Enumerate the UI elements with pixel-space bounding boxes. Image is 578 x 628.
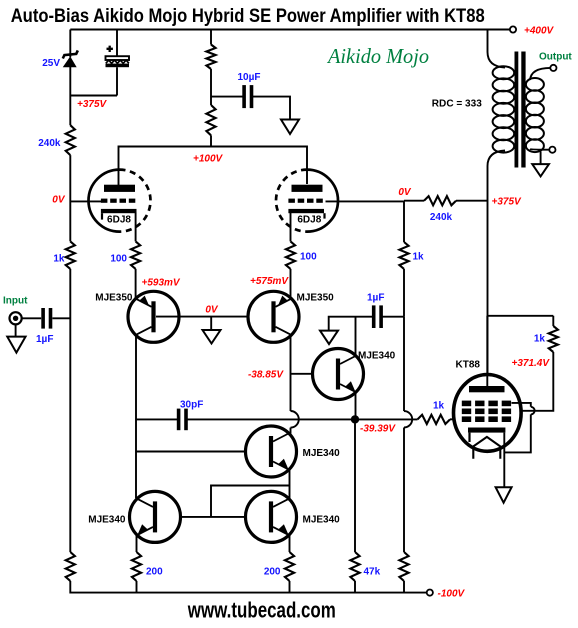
resistor 1k left [66,241,75,269]
terminal output hot [550,65,556,71]
ground at output [532,164,549,176]
wire Q6 emitter into bottom rail [289,581,291,594]
resistor 1k screen [549,326,558,352]
wire +375V node horizontal [70,95,117,97]
svg-text:1k: 1k [413,252,425,263]
ground at KT88 cathode [496,487,512,503]
svg-text:1µF: 1µF [367,293,384,304]
svg-text:10µF: 10µF [238,72,261,83]
resistor mid-bottom [399,552,408,581]
wire screen resistor down [512,352,554,411]
terminal output cold [549,147,555,153]
wire 30pF left [136,418,178,420]
svg-text:KT88: KT88 [456,360,481,371]
wire R chain middle [210,69,212,105]
wire Q4 emitter down [289,470,291,486]
wire 0V ground stub [210,317,212,330]
terminal -100V [427,590,433,596]
wire tube1 cathode down [135,213,137,242]
hop beam line over screen wire [531,407,535,415]
wire rail 1k to bottom resistor [69,269,71,552]
wire +100V rail [119,147,308,186]
wire dot to KT88 grid resistor [359,418,418,420]
wire Q4 base [136,451,247,453]
capacitor 10uF [242,85,246,108]
transformer T1 core [515,52,519,168]
hop Q2 collector over 30pF wire [291,411,299,428]
svg-text:RDC = 333: RDC = 333 [432,99,482,110]
wire jack ground stub [15,324,17,336]
svg-text:-100V: -100V [438,589,466,600]
transformer T1 secondary winding [526,78,544,152]
hop mid rail over grid wire [404,411,412,427]
wire rail into bottom rail [69,581,71,594]
wire 1uF input to rail [52,317,70,319]
wire 10uF node horizontal left [211,96,243,98]
svg-text:+575mV: +575mV [250,276,289,287]
wire Q6 emitter down [289,535,291,552]
wire top B+ rail [70,29,510,31]
wire 47k into bottom rail [354,581,356,594]
svg-text:www.tubecad.com: www.tubecad.com [187,598,336,623]
resistor upper (chain) [206,45,215,70]
terminal +400V [510,26,516,32]
resistor 240k left [66,125,75,155]
svg-text:6DJ8: 6DJ8 [107,214,131,225]
wire base Q1-Q2 [156,316,271,318]
svg-text:30pF: 30pF [180,400,203,411]
svg-text:47k: 47k [364,567,381,578]
svg-text:Input: Input [3,296,28,307]
wire KT88 plate [486,316,488,386]
wire jack to 1uF [22,317,42,319]
wire secondary top lead [530,68,550,80]
svg-text:Aikido Mojo: Aikido Mojo [326,44,429,68]
wire Q5 emitter into bottom rail [136,581,138,594]
wire 1k mid to 1uF node [403,269,405,317]
wire screen resistor top lead [552,316,554,326]
wire Q4 emitter to Q6 collector [289,486,291,499]
resistor 240k right [424,196,456,205]
wire 30pF right to dot [186,418,351,420]
wire left rail top segment [69,30,71,49]
svg-text:Output: Output [539,52,572,63]
svg-text:MJE340: MJE340 [303,515,341,526]
wire zener to +375V node [69,67,71,96]
wire mid rail to bottom resistor [403,428,405,553]
svg-text:1µF: 1µF [36,334,53,345]
pentode V1 KT88 [454,375,522,459]
wire top rail to R chain [210,30,212,45]
resistor 1k mid [399,242,408,269]
transistor Q2 MJE350 [248,291,299,342]
svg-text:MJE340: MJE340 [88,515,126,526]
wire grid resistor into tube [450,418,463,420]
resistor left-bottom [66,552,75,581]
wire primary top lead [488,30,506,68]
resistor lower (chain) [206,105,215,135]
wire tube2 cathode down [290,213,292,242]
transistor Q1 MJE350 [128,291,179,342]
wire 0V node down [403,201,405,242]
transistor Q5 MJE340 [130,491,181,542]
svg-text:240k: 240k [38,138,61,149]
svg-text:200: 200 [146,567,163,578]
svg-text:-38.85V: -38.85V [248,370,284,381]
wire 1uF to mid rail [381,316,404,318]
wire Q3 emitter down [355,393,357,420]
junction dot -39.39V node [351,415,359,423]
wire tube2 cathode R to Q2 [290,269,292,299]
svg-text:Auto-Bias Aikido Mojo Hybrid S: Auto-Bias Aikido Mojo Hybrid SE Power Am… [11,5,485,27]
wire 240k to +375V node [456,200,488,202]
wire Q5 emitter down [136,535,138,552]
resistor 100 (tube2 cathode) [286,241,295,269]
transformer T1 primary winding [493,66,515,152]
ground at 1uF node [320,331,338,345]
wire Q3 base [291,373,315,375]
capacitor 1uF (Q3) [372,305,376,328]
wire KT88 beam plate bracket [512,403,531,407]
svg-text:1k: 1k [433,401,445,412]
wire Q3 collector up [355,317,357,356]
wire output ground stub [540,152,542,165]
svg-text:MJE350: MJE350 [95,293,133,304]
triode U2 6DJ8 [276,170,338,232]
svg-text:25V: 25V [42,58,60,69]
wire primary bottom lead [488,151,506,387]
wire bottom rail [70,592,426,594]
resistor 1k grid (KT88) [418,415,451,424]
capacitor 30pF [177,409,181,431]
wire Q2 collector down [290,336,292,412]
wire Q4 emitter to bases corner [211,486,290,517]
wire 0V node to 240k [404,200,424,202]
svg-text:200: 200 [264,567,281,578]
wire dot down to 47k [354,424,356,553]
transistor Q4 MJE340 [246,426,297,477]
svg-text:1k: 1k [534,334,546,345]
wire 1uF node down [403,317,405,411]
wire mid rail into bottom rail [403,581,405,594]
svg-text:240k: 240k [430,212,453,223]
svg-text:+100V: +100V [193,154,224,165]
wire tube1 cathode R to Q1 [135,269,137,299]
wire Q1 collector down (left column) [135,335,137,498]
ground at 0V mid [203,330,221,344]
svg-text:1k: 1k [53,254,65,265]
wire cap C1 bottom lead [116,67,118,95]
wire tube1 grid [70,200,101,202]
svg-text:+593mV: +593mV [142,278,181,289]
svg-text:+400V: +400V [524,26,555,37]
wire rail above 240k [69,96,71,126]
wire to 1uF cap [356,316,374,318]
wire Q2 collector to Q4 [290,428,292,434]
capacitor 1uF input [41,308,45,329]
wire Q5 collector up [135,497,138,499]
svg-text:MJE350: MJE350 [297,293,335,304]
input jack J1 [10,312,22,324]
ground at 10uF [281,120,299,135]
svg-text:-39.39V: -39.39V [360,424,396,435]
svg-text:0V: 0V [52,195,66,206]
wire cap C1 top lead [116,30,118,57]
wire plate node to screen resistor [488,315,554,317]
transistor Q3 MJE340 [313,349,364,400]
zener D1 25V [64,57,76,67]
svg-text:6DJ8: 6DJ8 [297,214,321,225]
resistor 200 right [285,552,294,581]
wire R chain to +100V rail [210,135,212,146]
wire beam plate to cathode [504,414,531,452]
svg-text:+375V: +375V [77,99,108,110]
wire Q5-Q6 base link [181,516,247,518]
capacitor C1 electrolytic [106,56,130,60]
wire rail 240k to grid node [69,155,71,241]
resistor 47k [350,552,359,581]
svg-text:0V: 0V [205,305,219,316]
ground at input [7,337,25,353]
resistor 200 left [132,552,141,581]
wire KT88 cathode down [503,433,505,488]
svg-text:0V: 0V [398,187,412,198]
svg-text:MJE340: MJE340 [358,351,396,362]
wire secondary bottom lead [530,148,549,151]
triode U1 6DJ8 [89,170,151,232]
svg-text:100: 100 [110,254,127,265]
transistor Q6 MJE340 [246,491,297,542]
svg-text:100: 100 [300,252,317,263]
wire 10uF to ground corner [252,97,290,120]
resistor 100 (tube1 cathode) [131,241,140,269]
svg-text:MJE340: MJE340 [303,448,341,459]
wire Q3 collector node left [329,317,356,331]
svg-text:+375V: +375V [492,197,523,208]
wire tube2 grid [326,200,405,202]
svg-text:+371.4V: +371.4V [512,358,551,369]
